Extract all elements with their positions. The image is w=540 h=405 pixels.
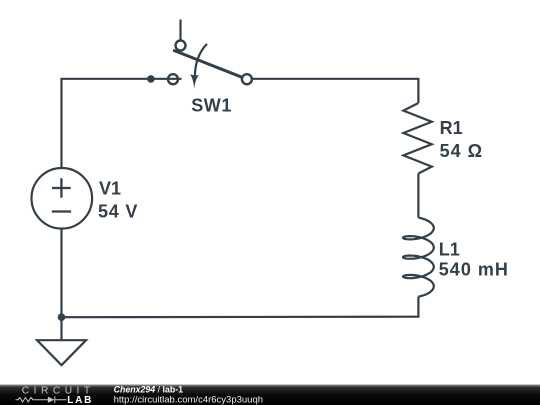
svg-text:54 Ω: 54 Ω: [440, 141, 483, 161]
switch SW1 throw circle top: [176, 41, 186, 51]
junction dot bottom-left node: [58, 313, 66, 321]
svg-text:SW1: SW1: [191, 96, 232, 116]
switch arrow head: [190, 74, 199, 89]
svg-text:540 mH: 540 mH: [439, 260, 509, 280]
wire bottom horizontal: [62, 297, 419, 318]
voltage source V1 circle: [32, 168, 93, 229]
svg-text:54 V: 54 V: [98, 201, 138, 221]
resistor R1: [403, 103, 431, 174]
svg-text:http://circuitlab.com/c4r6cy3p: http://circuitlab.com/c4r6cy3p3uuqh: [114, 395, 263, 405]
inductor L1: [403, 218, 434, 297]
V1 minus sign: [52, 210, 71, 212]
switch SW1 pole circle left: [168, 74, 178, 84]
svg-text:R1: R1: [440, 118, 463, 138]
switch SW1 lever: [173, 50, 247, 79]
ground: [37, 317, 86, 365]
footer bar: [0, 385, 540, 405]
switch SW1 top stub: [179, 20, 181, 41]
svg-text:LAB: LAB: [67, 395, 93, 405]
switch SW1 action arc: [195, 44, 207, 76]
V1 plus sign: [52, 178, 71, 211]
wire resistor to inductor: [417, 174, 419, 218]
wire top-left horizontal: [62, 79, 182, 169]
wire top-right horizontal: [252, 79, 419, 103]
junction dot at switch: [147, 75, 155, 83]
svg-text:V1: V1: [99, 179, 121, 199]
svg-text:L1: L1: [439, 239, 460, 259]
svg-text:Chenx294 / lab-1: Chenx294 / lab-1: [114, 385, 184, 395]
switch SW1 throw circle right: [242, 74, 252, 84]
wire left vertical lower: [60, 228, 62, 317]
logo diode triangle: [48, 397, 55, 403]
CircuitLab logo squiggle resistor+diode: [16, 396, 67, 403]
